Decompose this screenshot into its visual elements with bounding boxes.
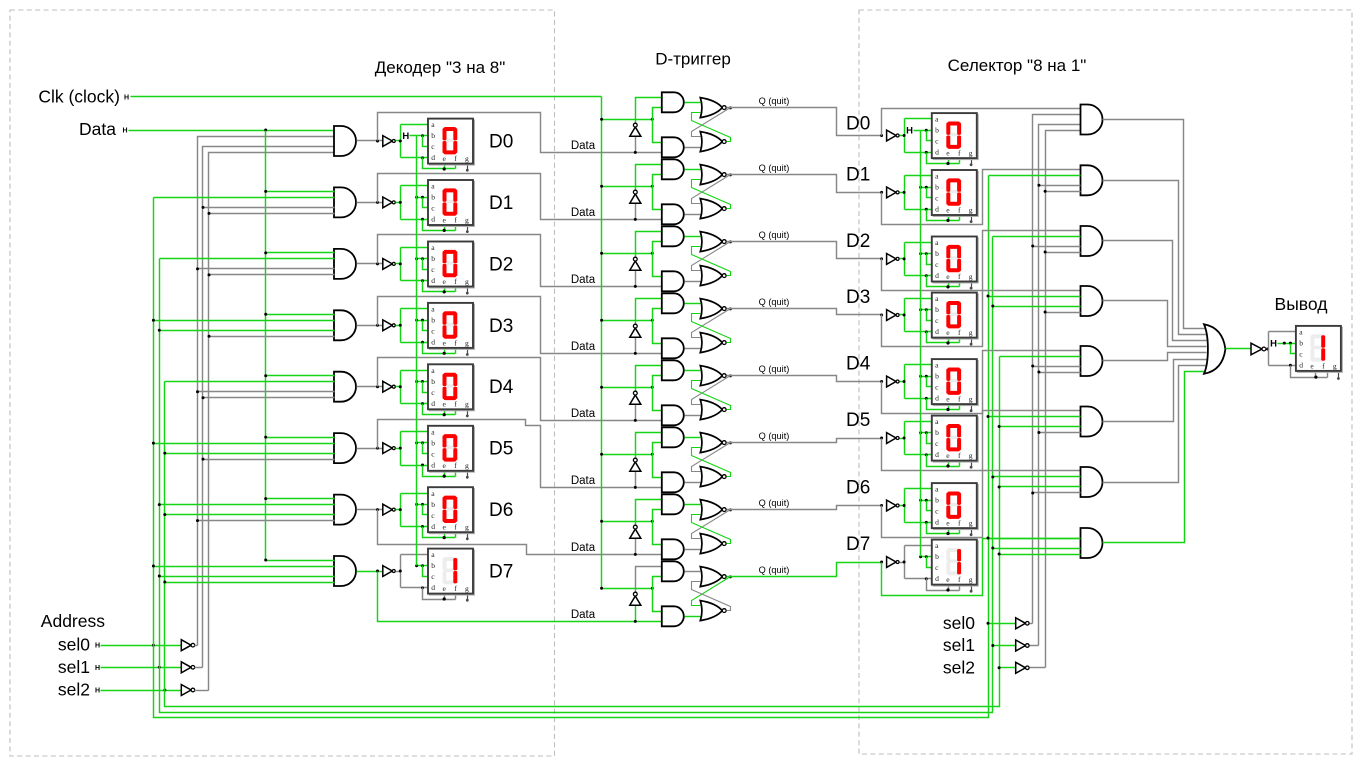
svg-text:g: g [969,575,973,584]
svg-text:Data: Data [571,140,596,152]
svg-text:sel1: sel1 [58,657,90,677]
svg-text:D2: D2 [489,254,513,275]
svg-text:d: d [935,327,939,336]
svg-text:sel1: sel1 [943,635,975,655]
svg-text:b: b [935,305,939,314]
svg-text:d: d [935,574,939,583]
svg-text:b: b [431,131,435,140]
svg-text:Декодер "3 на 8": Декодер "3 на 8" [375,58,506,77]
svg-text:Data: Data [79,119,116,139]
svg-text:b: b [431,254,435,263]
svg-text:b: b [935,372,939,381]
svg-text:D5: D5 [489,439,513,460]
svg-text:D0: D0 [489,132,513,153]
svg-text:D6: D6 [489,500,513,521]
svg-text:Address: Address [41,611,105,631]
svg-text:d: d [935,394,939,403]
svg-text:Data: Data [571,341,596,353]
svg-text:D-триггер: D-триггер [655,50,731,69]
svg-text:b: b [431,438,435,447]
svg-text:d: d [431,399,435,408]
svg-text:d: d [431,583,435,592]
svg-text:Q (quit): Q (quit) [759,230,790,240]
svg-text:d: d [431,522,435,531]
svg-text:b: b [935,552,939,561]
svg-text:g: g [969,519,973,528]
svg-text:g: g [1333,361,1337,370]
svg-text:D6: D6 [846,478,870,499]
svg-text:b: b [431,561,435,570]
svg-text:d: d [935,271,939,280]
svg-text:g: g [465,523,469,532]
svg-text:H: H [1270,339,1277,350]
svg-text:D7: D7 [489,562,513,583]
svg-text:D7: D7 [846,534,870,555]
svg-text:g: g [465,461,469,470]
svg-text:H: H [95,665,100,672]
svg-text:D2: D2 [846,231,870,252]
svg-text:Q (quit): Q (quit) [759,96,790,106]
svg-text:H: H [906,126,913,137]
svg-text:g: g [465,338,469,347]
svg-text:H: H [95,688,100,695]
svg-text:Q (quit): Q (quit) [759,163,790,173]
svg-text:sel2: sel2 [58,680,90,700]
svg-text:b: b [1299,339,1303,348]
svg-text:Q (quit): Q (quit) [759,565,790,575]
svg-text:d: d [431,338,435,347]
svg-text:Q (quit): Q (quit) [759,297,790,307]
svg-text:D4: D4 [846,354,871,375]
svg-text:g: g [465,215,469,224]
svg-text:H: H [95,643,100,650]
svg-text:sel2: sel2 [943,657,975,677]
svg-text:Data: Data [571,207,596,219]
svg-text:Data: Data [571,609,596,621]
svg-text:d: d [431,460,435,469]
svg-text:g: g [465,277,469,286]
svg-text:b: b [431,377,435,386]
svg-text:b: b [431,316,435,325]
svg-text:sel0: sel0 [943,613,975,633]
svg-text:d: d [431,153,435,162]
svg-text:D1: D1 [846,164,870,185]
svg-text:b: b [935,126,939,135]
svg-text:Q (quit): Q (quit) [759,498,790,508]
svg-text:d: d [1299,361,1303,370]
svg-text:b: b [935,428,939,437]
svg-text:H: H [402,131,409,142]
svg-text:g: g [969,149,973,158]
svg-text:d: d [431,276,435,285]
svg-text:g: g [465,154,469,163]
svg-text:D3: D3 [846,287,870,308]
svg-text:Вывод: Вывод [1275,294,1328,314]
svg-text:D4: D4 [489,377,514,398]
svg-text:Q (quit): Q (quit) [759,431,790,441]
svg-text:g: g [465,400,469,409]
svg-text:g: g [465,584,469,593]
svg-text:d: d [935,450,939,459]
svg-text:H: H [124,95,129,102]
svg-text:g: g [969,395,973,404]
svg-text:g: g [969,205,973,214]
svg-text:D5: D5 [846,410,870,431]
svg-text:g: g [969,328,973,337]
svg-text:d: d [935,518,939,527]
svg-text:d: d [935,205,939,214]
svg-text:g: g [969,451,973,460]
svg-text:b: b [431,193,435,202]
svg-text:Data: Data [571,475,596,487]
svg-text:d: d [935,148,939,157]
svg-text:d: d [431,215,435,224]
svg-text:D0: D0 [846,114,870,135]
svg-text:Q (quit): Q (quit) [759,364,790,374]
svg-text:Селектор "8 на 1": Селектор "8 на 1" [948,56,1087,75]
svg-text:b: b [935,496,939,505]
svg-text:Data: Data [571,542,596,554]
svg-text:D3: D3 [489,316,513,337]
svg-text:sel0: sel0 [58,635,90,655]
svg-text:b: b [431,500,435,509]
svg-text:H: H [122,128,127,135]
svg-text:D1: D1 [489,193,513,214]
svg-text:Clk (clock): Clk (clock) [38,87,120,107]
svg-text:Data: Data [571,408,596,420]
svg-text:g: g [969,272,973,281]
svg-text:Data: Data [571,274,596,286]
svg-text:b: b [935,249,939,258]
svg-text:b: b [935,183,939,192]
